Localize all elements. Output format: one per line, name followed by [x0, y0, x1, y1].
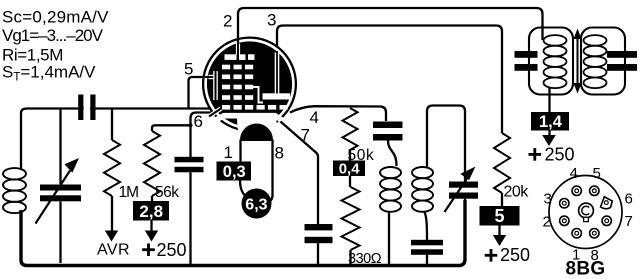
svg-text:0,3: 0,3 [223, 163, 246, 181]
ground bus wire [21, 200, 465, 266]
svg-text:20k: 20k [504, 184, 530, 201]
svg-text:250: 250 [500, 245, 530, 265]
cathode band [211, 116, 287, 124]
pin 5 lead inside tube [209, 75, 217, 79]
socket pin 7 [602, 216, 611, 225]
supply arrow +250 (56k branch) [145, 231, 158, 242]
wire tank top [427, 106, 465, 182]
svg-text:5: 5 [184, 60, 193, 79]
grids g1-g5 (dashed rows) [222, 65, 230, 70]
label +250 [529, 153, 542, 156]
white gap below cathode [237, 118, 277, 142]
svg-text:8BG: 8BG [566, 259, 606, 279]
wire pin 5 to grid net [189, 77, 207, 109]
resistor 20k [494, 133, 510, 193]
label +250 [485, 254, 498, 257]
wire heater pin 1 [239, 140, 241, 163]
wire box to heater circle [240, 180, 247, 198]
wire pin 6 net [191, 113, 215, 158]
svg-text:6,3: 6,3 [245, 196, 267, 213]
socket pin 4 [572, 186, 581, 195]
capacitor tank bottom [424, 211, 427, 240]
label +250 [142, 248, 155, 251]
voltage box 2,8 [133, 201, 169, 221]
wire input grid net [21, 109, 211, 171]
junction pin6/56k [188, 123, 192, 127]
svg-text:5: 5 [593, 165, 601, 182]
svg-text:1,4: 1,4 [539, 113, 563, 131]
current box 0,3 [217, 162, 252, 181]
wire heater pin 8 [267, 140, 273, 203]
svg-text:5: 5 [495, 206, 505, 226]
anode bar (mixer section) [263, 93, 291, 99]
socket pin 1 [572, 229, 581, 238]
tube V1 heptode envelope [203, 38, 296, 131]
svg-text:7: 7 [625, 213, 633, 230]
heater filament arc [241, 125, 272, 140]
wire anode (pin 2) to IF transformer primary [238, 8, 543, 43]
IF transformer primary shield/frame [529, 28, 573, 95]
svg-text:2: 2 [223, 12, 232, 31]
current box 1,4 [531, 112, 569, 131]
svg-text:250: 250 [157, 240, 187, 260]
AVR output arrow [105, 231, 118, 242]
svg-text:56k: 56k [155, 184, 179, 201]
svg-text:3: 3 [267, 11, 276, 30]
antenna coil L1 [3, 168, 26, 179]
svg-text:1M: 1M [119, 184, 139, 201]
grid connector bracket (screen grids) [213, 71, 218, 100]
socket pin 6 (keyed) [601, 197, 613, 209]
wire pin 4 net [290, 106, 386, 121]
pin 3 lead (inside) [275, 53, 280, 94]
oscillator tank coil L3 [412, 167, 433, 178]
svg-text:8: 8 [275, 144, 284, 163]
svg-text:Sc=0,29mA/V: Sc=0,29mA/V [2, 8, 109, 27]
capacitor pin6 decoupling [175, 157, 204, 163]
voltage box 0,4 [333, 161, 365, 177]
oscillator feedback coil L2 [380, 167, 401, 178]
svg-text:6: 6 [194, 112, 203, 131]
svg-text:330Ω: 330Ω [348, 251, 382, 267]
tuning adjustment double arrow [577, 36, 579, 86]
socket pin 3 [560, 199, 569, 208]
primary tuning capacitor [515, 51, 538, 58]
capacitor cathode bypass [305, 224, 333, 230]
capacitor oscillator grid [373, 122, 403, 129]
wire pin 7 (cathode) [281, 122, 319, 225]
supply arrow +250 (anode branch) [542, 135, 556, 146]
wire box to +250 arrow [150, 221, 152, 232]
pin 2 lead (inside) [236, 44, 240, 55]
socket pin 5 [590, 186, 599, 195]
voltage box 5 [480, 206, 520, 226]
socket pin 8 [590, 229, 599, 238]
resistor 56k [152, 125, 155, 131]
variable capacitor VC2 (oscillator) [449, 182, 478, 188]
svg-text:0,4: 0,4 [339, 161, 361, 178]
tube socket base diagram [549, 176, 622, 249]
svg-text:4: 4 [570, 165, 578, 182]
socket pin 2 [560, 216, 569, 225]
socket center spigot [579, 203, 594, 218]
resistor 1M [111, 109, 113, 141]
svg-text:1: 1 [224, 143, 233, 162]
pin 6 lead inside tube (diagonal) [209, 109, 221, 117]
IF transformer secondary winding [584, 35, 607, 46]
wire 1M to AVR arrow [111, 196, 113, 231]
svg-text:2: 2 [543, 214, 551, 231]
heater supply circle 6,3 [242, 189, 272, 219]
wire primary bottom [548, 88, 550, 112]
top electrode (oscillator anode) [225, 54, 237, 60]
inner connector g3 to anode region [252, 87, 263, 103]
secondary tuning capacitor [607, 51, 637, 58]
resistor 330 ohm [342, 187, 360, 250]
svg-text:6: 6 [625, 191, 633, 208]
wire screen (pin 3) to 20k resistor [277, 26, 502, 134]
svg-text:3: 3 [544, 191, 552, 208]
svg-text:Vg1=–3...–20V: Vg1=–3...–20V [2, 26, 104, 45]
svg-text:AVR: AVR [97, 242, 130, 259]
IF transformer secondary frame [581, 28, 625, 95]
svg-text:2,8: 2,8 [139, 202, 163, 221]
svg-text:4: 4 [310, 108, 319, 127]
svg-text:250: 250 [545, 144, 575, 164]
variable tuning capacitor VC1 [59, 109, 61, 185]
IF transformer primary winding [544, 35, 567, 46]
resistor 50k [343, 108, 358, 150]
supply arrow +250 (screen branch) [493, 235, 506, 246]
wire 56k to box [151, 196, 153, 202]
coupling capacitor (series, top-left) [84, 95, 90, 120]
